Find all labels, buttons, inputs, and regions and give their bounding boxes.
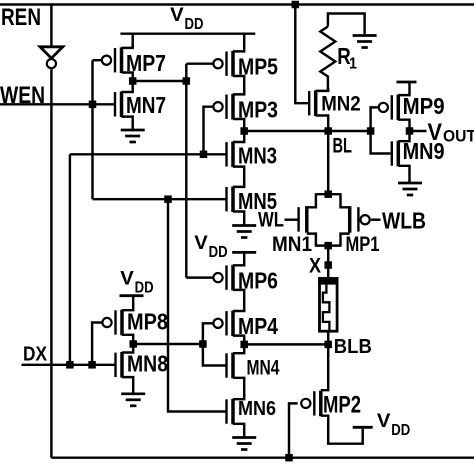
svg-text:WLB: WLB bbox=[382, 208, 426, 234]
svg-text:MN8: MN8 bbox=[127, 351, 168, 377]
ground MN8 bbox=[121, 394, 145, 406]
wire WL lead to MN1 gate bbox=[285, 218, 298, 220]
svg-text:MN4: MN4 bbox=[247, 355, 280, 379]
node DXB: MP8/MN8 output wire bbox=[133, 343, 203, 345]
power V_DD supply bar MP2 bbox=[353, 426, 373, 429]
transistor MN5 bbox=[227, 186, 278, 214]
wire MN3 source to MN5 drain bbox=[233, 167, 244, 185]
svg-text:MN1: MN1 bbox=[272, 232, 312, 256]
wire MN2 source to BL bbox=[316, 116, 329, 132]
junction pass gate bottom bbox=[324, 242, 332, 250]
power V_DD supply bar MP8 bbox=[120, 294, 144, 297]
wire Vout lead bbox=[410, 130, 427, 132]
wire WEN tap bus to MN6 gate bbox=[168, 199, 226, 411]
wire MP3 gate tap bbox=[204, 107, 213, 155]
transistor MP2 bbox=[301, 391, 361, 419]
svg-text:BLB: BLB bbox=[334, 336, 372, 358]
wire DXB to MP4 gate bbox=[203, 323, 213, 344]
ground MN6 bbox=[232, 438, 256, 450]
junction BL at MP3/MN3 output bbox=[240, 127, 248, 135]
svg-text:DD: DD bbox=[391, 422, 410, 439]
junction DX bus on DX line bbox=[66, 361, 74, 369]
transistor MN8 bbox=[116, 351, 169, 378]
junction WEN bus on WEN line bbox=[89, 101, 97, 109]
wire MP9/MN9 gate bus bbox=[371, 107, 391, 153]
transistor MN4 bbox=[227, 353, 280, 380]
wire MP3 drain to BL bbox=[233, 119, 244, 131]
wire MP4 source lead bbox=[233, 309, 244, 311]
wire BL line bbox=[244, 130, 370, 132]
wire V_DD stub to MP8 source bbox=[122, 296, 133, 311]
wire MN6 drain lead bbox=[233, 394, 244, 399]
wire MP6 drain to MP4 source bbox=[233, 290, 244, 312]
transistor MP3 bbox=[213, 94, 278, 123]
MP1 gate bubble bbox=[361, 215, 370, 224]
transistor MN9 bbox=[392, 138, 445, 167]
junction MP3 gate tap on MN3 gate line bbox=[200, 151, 208, 159]
transistor MN3 bbox=[227, 142, 278, 169]
ground MN5 bbox=[232, 226, 256, 238]
junction MP8 gate tap on DX line bbox=[88, 361, 96, 369]
svg-text:MP2: MP2 bbox=[323, 392, 361, 419]
wire WENB bus vertical bbox=[185, 64, 187, 278]
transistor MP7 bbox=[102, 47, 166, 76]
wire MP5 drain to MP3 source bbox=[233, 76, 244, 95]
power V_DD supply bar MP6 bbox=[232, 251, 256, 254]
wire MN5 drain lead bbox=[233, 183, 244, 187]
wire MP5 source to V_DD rail bbox=[233, 34, 244, 52]
wire memristor to BLB bbox=[327, 331, 329, 344]
svg-text:V: V bbox=[170, 5, 184, 26]
ground MN9 bbox=[398, 183, 422, 195]
svg-text:MP8: MP8 bbox=[127, 309, 168, 335]
ground R1 bbox=[353, 36, 377, 48]
transistor MP5 bbox=[213, 51, 278, 80]
wire MP4 drain to BLB bbox=[233, 336, 244, 345]
power V_DD supply bar MP9 bbox=[397, 81, 417, 84]
wire BL down to pass gate bbox=[327, 131, 329, 194]
wire pass gate to X node bbox=[327, 246, 329, 278]
junction WEN/MN6 bus bbox=[164, 195, 172, 203]
wire MN2 drain to R1 bbox=[316, 88, 329, 91]
svg-text:V: V bbox=[428, 119, 443, 146]
wire MP9 drain to Vout bbox=[398, 120, 409, 131]
wire WEN input line bbox=[0, 103, 114, 105]
svg-text:WL: WL bbox=[258, 209, 284, 232]
svg-text:X: X bbox=[309, 255, 321, 278]
transistor MP9 bbox=[379, 93, 445, 120]
svg-text:MP9: MP9 bbox=[403, 93, 445, 119]
wire DX bus vertical (to MN3/MP3 gates) bbox=[69, 154, 71, 364]
wire MN6 source to ground bbox=[233, 424, 244, 438]
wire V_DD stub to MP6 source bbox=[233, 252, 244, 265]
wire WEN to MP7 gate bbox=[93, 59, 102, 61]
junction REN tap on top rail bbox=[292, 1, 300, 9]
wire MP2 source to V_DD bbox=[321, 416, 363, 444]
transistor MN7 bbox=[115, 92, 166, 119]
wire RENB left rail down bbox=[50, 69, 52, 458]
svg-text:V: V bbox=[120, 269, 134, 290]
wire DX to MP8 gate bbox=[92, 323, 101, 365]
wire REN drop to inverter bbox=[50, 5, 52, 48]
wire V_DD stub to MP9 source bbox=[398, 82, 409, 95]
svg-text:DD: DD bbox=[209, 244, 228, 261]
wire WEN to MN5 gate bbox=[93, 198, 227, 200]
inverter output bubble bbox=[47, 59, 56, 68]
svg-text:DD: DD bbox=[135, 280, 154, 297]
svg-text:1: 1 bbox=[349, 56, 357, 73]
svg-text:BL: BL bbox=[333, 134, 353, 158]
power V_DD rail (MP7/MP5) bbox=[120, 32, 255, 34]
wire MN9 source to ground bbox=[398, 166, 409, 183]
svg-text:DD: DD bbox=[185, 16, 204, 33]
wire MP7 source to V_DD rail bbox=[122, 34, 133, 48]
wire MN8 source to ground bbox=[122, 377, 133, 394]
svg-text:MN2: MN2 bbox=[321, 93, 361, 116]
wire BLB down to MP2 drain bbox=[321, 344, 328, 390]
transistor MP6 bbox=[213, 265, 278, 294]
wire MN3 drain to BL bbox=[233, 131, 244, 142]
memristor M1 bbox=[318, 277, 338, 331]
junction X node bbox=[324, 261, 332, 269]
junction MP2 gate on bottom rail bbox=[285, 454, 293, 462]
svg-text:DX: DX bbox=[23, 343, 48, 365]
wire MN4 drain to BLB bbox=[233, 344, 244, 353]
wire WEN vertical bus bbox=[91, 60, 93, 199]
wire MP2 gate to RENB rail bbox=[289, 403, 298, 457]
wire REN top rail bbox=[0, 3, 474, 5]
wire DX to MN3 gate bbox=[70, 153, 226, 155]
wire MP8 drain to node DXB bbox=[122, 335, 133, 344]
wire WENB to MP5 gate bbox=[186, 62, 212, 64]
svg-text:MN7: MN7 bbox=[126, 92, 166, 118]
transistor MP4 bbox=[213, 311, 278, 340]
svg-text:OUT: OUT bbox=[443, 127, 474, 146]
wire MN4 source to MN6 drain bbox=[233, 378, 244, 396]
wire MN5 source to ground bbox=[233, 212, 244, 226]
svg-text:MP1: MP1 bbox=[346, 232, 380, 256]
transistor MP8 bbox=[102, 309, 168, 336]
wire MN9 drain to Vout bbox=[398, 131, 409, 141]
inverter on REN (triangle) bbox=[40, 47, 63, 58]
wire RENB bottom rail bbox=[51, 456, 474, 458]
wire WENB to MP6 gate bbox=[186, 276, 212, 278]
node A: MP7/MN7 output wire bbox=[133, 80, 187, 82]
junction pass gate top bbox=[324, 190, 332, 198]
svg-text:MN6: MN6 bbox=[238, 398, 276, 420]
junction DXB at MP4/MN4 gates bbox=[199, 340, 207, 348]
junction BL at MN2 source bbox=[324, 127, 332, 135]
wire MN7 source to ground bbox=[122, 117, 133, 130]
wire BLB line bbox=[244, 343, 328, 345]
wire DX input line bbox=[22, 364, 115, 366]
resistor R1 bbox=[320, 14, 364, 91]
junction BLB at MP4/MN4 output bbox=[240, 341, 248, 349]
junction node A at MN7 drain bbox=[129, 77, 137, 85]
junction Vout node bbox=[406, 127, 414, 135]
wire MP3 source lead bbox=[233, 93, 244, 94]
wire MN8 drain to node DXB bbox=[122, 344, 133, 353]
transmission gate MN1/MP1 bbox=[299, 193, 359, 246]
wire REN to MN2 gate bbox=[295, 5, 308, 104]
svg-text:REN: REN bbox=[1, 4, 41, 31]
transistor MN2 bbox=[309, 90, 361, 116]
wire MN7 drain up to node A bbox=[122, 81, 133, 92]
wire WLB lead bbox=[371, 218, 381, 220]
svg-text:V: V bbox=[194, 233, 208, 254]
wire DXB to MN4 gate bbox=[203, 344, 226, 366]
ground MN7 bbox=[121, 130, 145, 142]
svg-text:MN3: MN3 bbox=[238, 143, 277, 169]
junction BL at MP9/MN9 gate bus bbox=[367, 127, 375, 135]
junction BLB at memristor bbox=[324, 341, 332, 349]
transistor MN6 bbox=[227, 398, 277, 424]
junction node A at WENB bus bbox=[183, 77, 191, 85]
wire MP7 drain to node A bbox=[122, 73, 133, 82]
svg-text:V: V bbox=[377, 411, 391, 432]
junction DXB at MN8 drain bbox=[129, 340, 137, 348]
